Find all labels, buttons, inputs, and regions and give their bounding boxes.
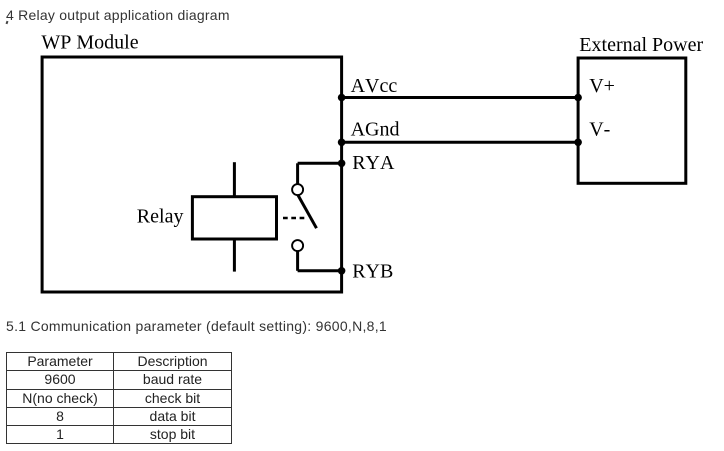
svg-text:AVcc: AVcc xyxy=(351,75,398,97)
node dot RYB xyxy=(338,267,346,275)
heading: 5.1 Communication parameter xyxy=(6,319,387,333)
actuator dashed link xyxy=(283,217,305,220)
switch bottom wire down to RYB xyxy=(296,251,299,271)
wire RYA stub xyxy=(298,162,342,165)
switch bottom contact circle xyxy=(292,240,303,251)
svg-text:AGnd: AGnd xyxy=(351,119,400,141)
WP Module box xyxy=(42,57,342,292)
heading: 4 Relay output application diagram xyxy=(6,8,230,22)
switch blade xyxy=(298,195,317,228)
relay coil bottom lead xyxy=(233,239,236,272)
wire AVcc to V+ xyxy=(342,96,578,99)
relay coil box xyxy=(192,197,276,239)
wire AGnd to V- xyxy=(342,141,578,144)
switch top wire down from RYA xyxy=(296,163,299,184)
svg-text:RYB: RYB xyxy=(352,261,393,283)
svg-text:External Power: External Power xyxy=(579,34,703,56)
svg-text:WP Module: WP Module xyxy=(41,32,138,54)
node dot RYA xyxy=(338,160,346,168)
External Power box xyxy=(578,58,686,183)
stray tick under the 4 xyxy=(6,21,9,25)
parameters table xyxy=(6,352,232,444)
node dot AVcc at WP edge xyxy=(338,94,346,102)
relay coil top lead xyxy=(233,162,236,197)
node dot V+ at External Power edge xyxy=(574,94,582,102)
svg-text:Relay: Relay xyxy=(137,206,184,228)
svg-text:RYA: RYA xyxy=(352,152,395,174)
wire RYB stub xyxy=(298,269,342,272)
svg-text:V-: V- xyxy=(589,119,610,141)
node dot AGnd at WP edge xyxy=(338,139,346,147)
switch top contact circle xyxy=(292,184,303,195)
node dot V- at External Power edge xyxy=(574,139,582,147)
svg-text:V+: V+ xyxy=(589,75,615,97)
